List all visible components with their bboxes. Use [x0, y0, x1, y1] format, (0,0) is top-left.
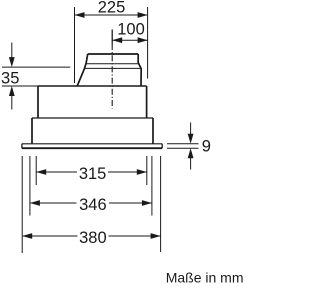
centerline dash-dot through duct: [111, 44, 113, 109]
dim 380 left arrowhead: [22, 233, 32, 239]
dim 35 down arrowhead: [9, 57, 15, 67]
body lower tier left edge: [31, 118, 33, 144]
dim 380 right extension line: [160, 156, 162, 252]
svg-text:9: 9: [202, 138, 211, 156]
dim 380 left extension line: [21, 156, 23, 253]
svg-text:315: 315: [79, 165, 107, 183]
dim 346 dimension line right segment: [109, 202, 152, 204]
dim 315 left extension line: [35, 156, 37, 185]
duct collar bead line lower: [85, 67, 142, 69]
bottom flange plate bottom edge: [22, 147, 162, 149]
body top edge thin extension to left margin: [2, 85, 38, 87]
duct collar top edge: [88, 53, 139, 55]
dim 225 left arrowhead: [75, 12, 85, 18]
dim 346 dimension line left segment: [30, 202, 77, 204]
dim 315 dimension line left segment: [36, 171, 77, 173]
dim 225 left extension line: [74, 7, 76, 83]
dim 225/100 shared right extension line: [147, 7, 149, 79]
dim 100 left extension stub on centerline: [111, 30, 113, 44]
dim 9 upper arrow shaft: [190, 123, 192, 135]
dim 35 upper arrow shaft: [11, 43, 13, 59]
dim 9 lower reference line: [167, 147, 199, 149]
duct collar bead line upper: [86, 63, 139, 65]
dim 35 upper reference line: [2, 66, 70, 68]
dim 225 dimension line: [75, 14, 148, 16]
dim 315 left arrowhead: [36, 169, 46, 175]
dim 9 lower arrow shaft: [190, 157, 192, 169]
body step line between tiers: [32, 117, 153, 119]
dim 9 down arrowhead: [188, 134, 194, 144]
body upper tier left edge: [37, 86, 39, 118]
dim 315 dimension line right segment: [108, 171, 147, 173]
dim 315 right arrowhead: [137, 169, 147, 175]
dim 9 upper reference line: [167, 143, 199, 145]
svg-text:225: 225: [98, 0, 126, 17]
dim 100 left arrowhead: [112, 37, 122, 43]
svg-text:35: 35: [1, 70, 19, 88]
dim 380 right arrowhead: [151, 233, 161, 239]
dim 35 up arrowhead: [9, 86, 15, 96]
svg-text:380: 380: [79, 229, 107, 247]
dim 380 dimension line left segment: [22, 235, 77, 237]
dim 346 right arrowhead: [142, 200, 152, 206]
svg-text:Maße in mm: Maße in mm: [166, 269, 244, 285]
bottom flange plate left end: [21, 144, 23, 148]
bottom flange plate top edge: [22, 143, 162, 145]
centerline solid stub above duct: [111, 30, 113, 45]
dim 100 dimension line: [112, 39, 147, 41]
dim 380 dimension line right segment: [109, 235, 161, 237]
svg-text:346: 346: [79, 196, 107, 214]
dim 100 right arrowhead: [138, 37, 148, 43]
dim 346 right extension line: [151, 156, 153, 216]
dim 346 left extension line: [29, 156, 31, 216]
body upper tier top edge: [38, 85, 147, 87]
dim 315 right extension line: [146, 156, 148, 185]
svg-text:100: 100: [117, 21, 145, 39]
body lower tier right edge: [152, 118, 154, 144]
duct collar right side: [138, 54, 141, 86]
dim 346 left arrowhead: [30, 200, 40, 206]
dim 225 right arrowhead: [138, 12, 148, 18]
body upper tier right edge: [146, 86, 148, 118]
dim 35 lower arrow shaft: [11, 96, 13, 110]
dim 9 up arrowhead: [188, 148, 194, 158]
bottom flange plate right end: [161, 144, 163, 148]
duct collar left side: [77, 54, 88, 86]
